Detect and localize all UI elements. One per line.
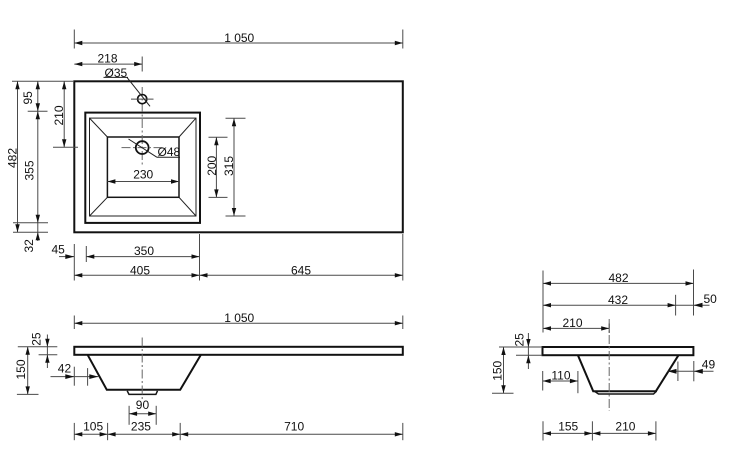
basin outer rim (plan) [85,113,200,223]
svg-text:218: 218 [98,52,118,66]
svg-text:315: 315 [222,156,236,176]
svg-text:25: 25 [513,333,527,347]
drain boss (side) [595,391,657,394]
left extension lines (plan) [12,81,78,232]
dimension 482 (side) [543,270,694,333]
dimension 210 (side bottom) [592,420,656,436]
dimension 1050 (front) [74,311,403,329]
dimension 210 (side top) [543,316,609,333]
svg-text:710: 710 [284,420,304,434]
svg-text:110: 110 [551,368,570,382]
dimension 355 (plan) [23,111,41,223]
bottom extension lines (side) [543,421,656,440]
svg-text:150: 150 [14,359,28,379]
countertop outline (plan) [74,81,403,232]
bottom extension lines (plan) [74,234,403,281]
label D48 with leader [129,139,181,159]
svg-text:405: 405 [130,263,150,277]
svg-text:645: 645 [291,263,311,277]
label D35 with leader [104,66,151,107]
drain boss (front) [127,391,157,395]
dimension 1050 (plan top) [74,30,403,49]
faucet hole circle [131,95,154,104]
basin inner rim (plan) [90,118,197,216]
dimension 95 (plan) [21,81,40,111]
svg-text:1 050: 1 050 [224,311,254,325]
svg-text:355: 355 [23,160,37,180]
counter slab (front) [74,347,403,355]
dimension 710 (front) [180,420,403,437]
vertical centerline through faucet and drain [141,87,143,166]
dimension 432 (side) [543,293,676,316]
svg-text:150: 150 [491,360,505,380]
dimension 105 (front) [74,420,107,437]
dimension 45 (plan) [52,243,75,259]
svg-text:50: 50 [704,292,718,306]
svg-text:200: 200 [205,155,219,175]
dimension 90 (front drain boss) [129,398,156,425]
dimension 235 (front) [108,420,181,437]
bowl profile (front) [88,355,201,390]
bowl profile (side) [578,355,679,391]
dimension 42 (front) [51,361,99,385]
drain hole circle [122,141,163,154]
dimension 25 (front slab thickness) [18,332,58,368]
dimension 32 (plan) [22,223,40,253]
svg-text:90: 90 [136,398,150,412]
svg-text:105: 105 [83,420,103,434]
basin bevel diagonals [90,118,197,216]
svg-text:210: 210 [563,316,583,330]
svg-text:210: 210 [615,420,635,434]
dimension 218 (plan, faucet offset) [74,52,142,72]
dimension 200 (plan, basin bottom depth) [205,137,228,197]
dimension 350 (plan) [86,244,199,259]
svg-text:210: 210 [52,105,66,125]
dimension 645 (plan) [200,263,403,277]
svg-text:1 050: 1 050 [224,31,254,45]
svg-text:32: 32 [22,239,36,253]
bottom extension lines (front) [74,423,403,440]
centerline (side) [608,319,610,411]
svg-text:42: 42 [58,361,72,375]
svg-text:25: 25 [30,332,44,346]
centerline (front) [141,338,143,402]
dimension 25 (side slab thickness) [499,333,542,369]
dimension 230 (plan, basin bottom width) [107,167,179,183]
svg-text:482: 482 [609,271,629,285]
dimension 405 (plan) [74,263,199,277]
basin bottom rectangle (plan) [107,137,179,197]
svg-text:432: 432 [608,293,628,307]
dimension 482 (plan overall depth) [5,81,19,232]
svg-text:230: 230 [133,167,153,181]
svg-text:155: 155 [558,420,578,434]
dimension 210 (plan, drain offset) [52,81,66,147]
svg-text:482: 482 [5,148,19,168]
svg-text:49: 49 [702,357,716,371]
dimension 155 (side bottom) [543,420,592,436]
dimension 50 (side) [676,292,718,308]
dimension 315 (plan, basin rim depth) [222,118,246,216]
dimension 150 (side overall height) [491,347,514,393]
svg-text:45: 45 [52,243,66,257]
dimension 150 (front overall height) [14,347,39,395]
svg-text:95: 95 [21,91,35,105]
svg-text:235: 235 [131,420,151,434]
dimension 49 (side) [668,357,716,381]
svg-text:350: 350 [134,244,154,258]
dimension 110 (side) [543,368,578,393]
counter slab (side) [543,347,694,355]
